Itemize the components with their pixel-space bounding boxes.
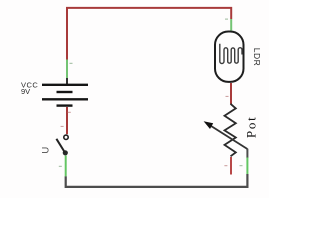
- svg-text:Pot: Pot: [243, 115, 258, 138]
- svg-text:U: U: [40, 147, 51, 154]
- svg-text:9V: 9V: [21, 87, 30, 96]
- svg-text:LDR: LDR: [252, 48, 262, 67]
